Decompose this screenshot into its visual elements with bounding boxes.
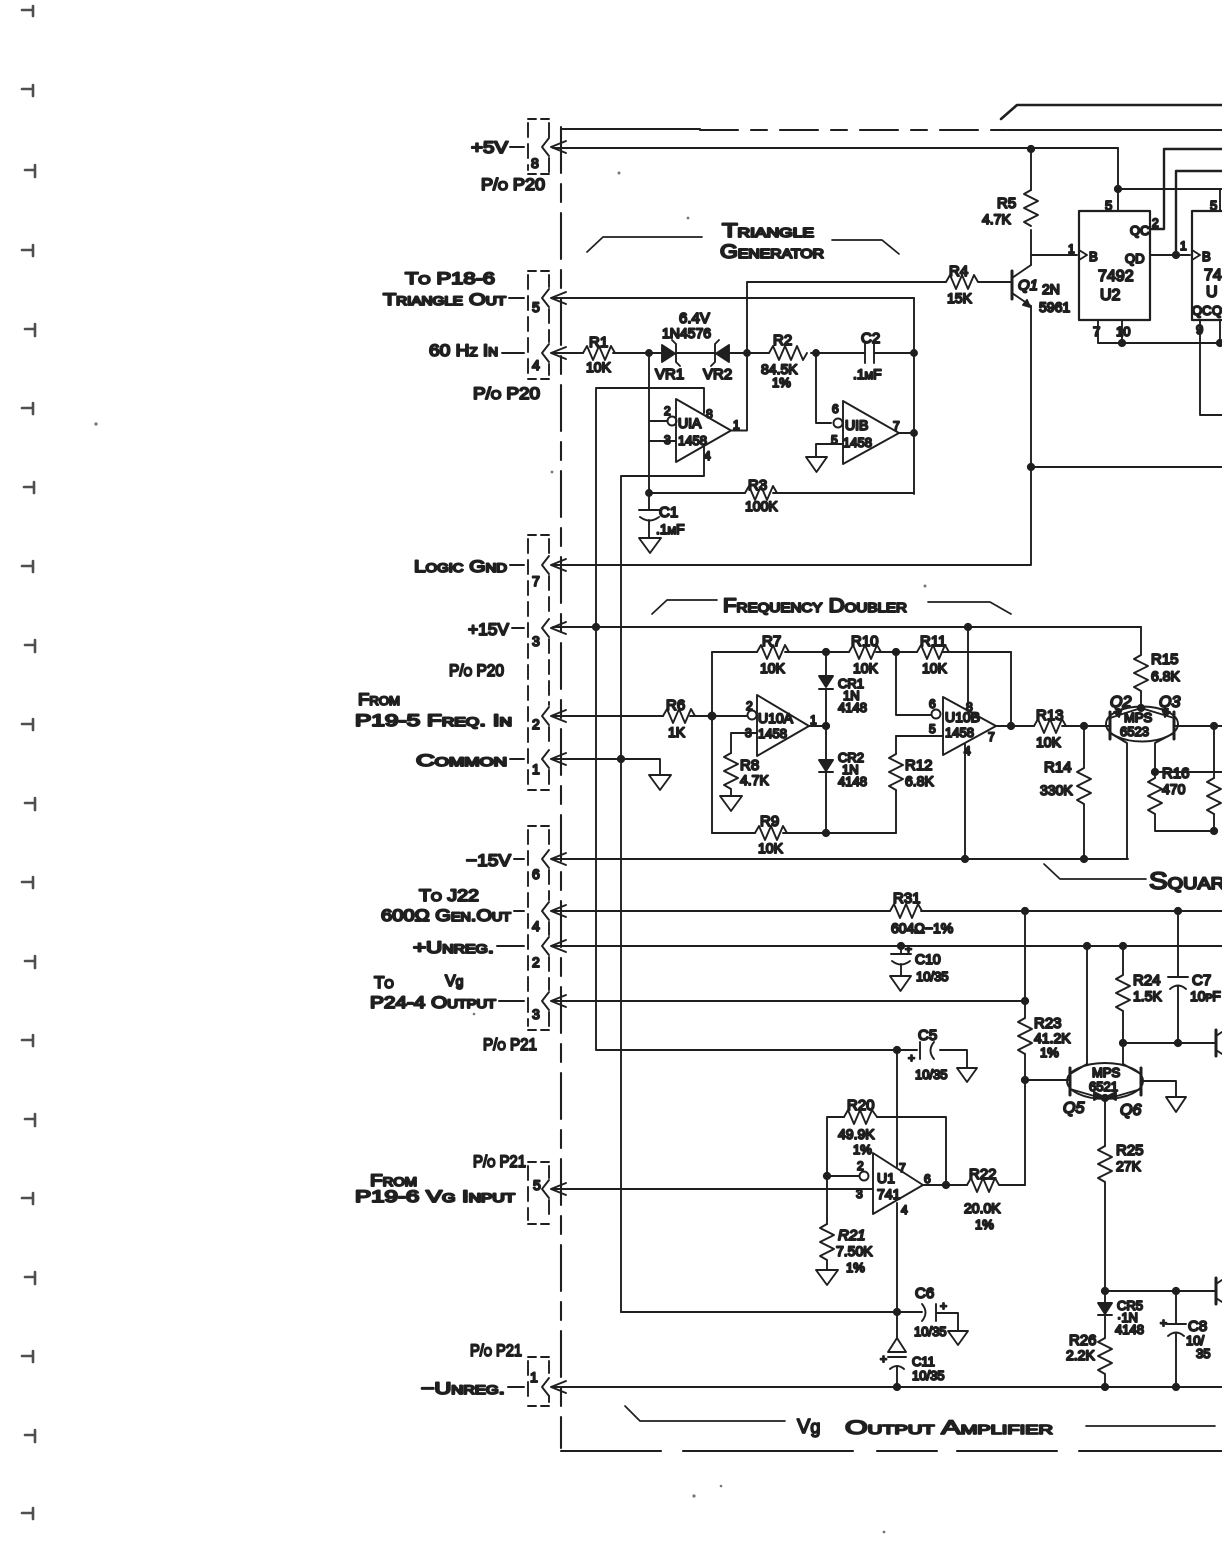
resistor R13 — [1034, 719, 1110, 733]
svg-text:1N4576: 1N4576 — [662, 325, 711, 341]
pin 4 arrow — [551, 905, 566, 917]
wire U3 pin 5 — [1219, 189, 1221, 211]
svg-text:Q6: Q6 — [1120, 1102, 1141, 1119]
svg-text:8: 8 — [531, 155, 539, 171]
banner Vg Output Amplifier callout — [625, 1406, 1215, 1426]
pin 3 arrow — [551, 995, 566, 1007]
svg-text:60 Hz In: 60 Hz In — [429, 341, 498, 360]
wire +5V rail — [553, 147, 1118, 149]
svg-text:R11: R11 — [920, 633, 946, 650]
svg-text:2: 2 — [857, 1159, 864, 1173]
svg-text:R25: R25 — [1116, 1142, 1144, 1159]
IC U2 7492 — [1079, 211, 1150, 320]
pin 5 arrow — [551, 1183, 566, 1195]
capacitor C1 — [639, 493, 660, 538]
svg-text:6: 6 — [929, 697, 936, 711]
svg-text:10/35: 10/35 — [912, 1368, 945, 1383]
OUTAMP — [553, 627, 1222, 1390]
wire assembly boundary top dash-dot — [561, 128, 700, 130]
svg-text:R3: R3 — [748, 477, 767, 494]
connector P21 pins 6,4,2,3 bracket — [528, 830, 549, 1026]
svg-text:QC: QC — [1130, 223, 1150, 238]
wire Vg output — [553, 1000, 1025, 1002]
wire Q6 base to ground — [1141, 1081, 1176, 1097]
wire -Unreg rail — [553, 1386, 1222, 1388]
svg-text:C10: C10 — [915, 951, 941, 967]
svg-text:R5: R5 — [997, 195, 1016, 212]
wire assembly boundary bottom dash — [561, 1450, 1222, 1452]
svg-text:3: 3 — [532, 1006, 540, 1022]
svg-text:+Unreg.: +Unreg. — [413, 938, 494, 957]
wire Q1 collector to +5V — [1030, 149, 1032, 265]
resistor R2 — [769, 346, 807, 360]
svg-text:1: 1 — [810, 713, 817, 727]
svg-text:From: From — [358, 690, 400, 709]
svg-text:Frequency Doubler: Frequency Doubler — [723, 596, 907, 617]
svg-text:+: + — [1160, 1316, 1167, 1330]
wire +Unreg rail — [553, 945, 1222, 947]
svg-text:R24: R24 — [1133, 972, 1161, 989]
zener VR1 — [662, 345, 675, 362]
resistor R12 — [889, 736, 903, 833]
svg-text:1%: 1% — [975, 1217, 994, 1232]
node junction Q3 collector — [1152, 769, 1158, 775]
svg-text:4.7K: 4.7K — [740, 772, 769, 788]
svg-text:Triangle: Triangle — [722, 221, 814, 242]
wire R9 row — [712, 832, 896, 834]
svg-text:4: 4 — [532, 918, 540, 934]
svg-text:6523: 6523 — [1120, 724, 1149, 739]
node junction C1/R3 — [646, 490, 652, 496]
wire Q1 emitter down to logic gnd — [553, 306, 1031, 565]
svg-text:10K: 10K — [1036, 734, 1062, 750]
svg-text:5: 5 — [1105, 198, 1112, 213]
capacitor C11 — [888, 1312, 906, 1387]
ground under C10 — [890, 976, 911, 991]
section banner top right — [1001, 105, 1222, 119]
wire Q2 base — [1084, 725, 1110, 727]
wire Vg input — [553, 1188, 873, 1190]
node junction C11 top — [894, 1309, 900, 1315]
pin 1 chevron — [542, 1378, 549, 1396]
svg-text:1: 1 — [530, 1369, 538, 1385]
ground under C1 — [639, 538, 661, 553]
svg-text:R22: R22 — [969, 1166, 997, 1183]
svg-text:3: 3 — [664, 433, 671, 447]
resistor R20 loop — [827, 1117, 946, 1176]
svg-text:C5: C5 — [918, 1027, 937, 1044]
capacitor C7 — [1168, 911, 1188, 1043]
connector P20 pins 7,3,2,1 bracket — [528, 539, 549, 786]
resistor R23 — [1018, 1018, 1032, 1054]
wire U10B pin 4 supply — [964, 744, 966, 859]
wire U3 pin 11 down — [1219, 320, 1221, 343]
wire C5 feed from +15V column — [596, 627, 967, 1068]
svg-text:1: 1 — [1180, 239, 1187, 253]
svg-text:1%: 1% — [846, 1260, 865, 1275]
pin 4 arrow — [551, 347, 566, 359]
node junction VR2 output — [744, 350, 750, 356]
svg-text:5961: 5961 — [1039, 299, 1070, 315]
pin 2 arrow — [551, 710, 566, 722]
wire QD to U3 pin 1 — [1150, 254, 1190, 256]
svg-text:P/o P20: P/o P20 — [449, 661, 504, 680]
svg-text:+: + — [940, 1299, 947, 1313]
svg-text:U10A: U10A — [758, 710, 794, 726]
svg-text:4: 4 — [704, 449, 711, 463]
pin 1 arrow — [551, 753, 566, 765]
svg-text:1458: 1458 — [945, 725, 974, 740]
pin 5 chevron — [542, 1180, 549, 1198]
svg-text:5: 5 — [929, 722, 936, 736]
svg-text:U10B: U10B — [945, 709, 980, 725]
TOPRIGHT — [553, 146, 1222, 565]
connector P20 pins 5,4 bracket — [528, 275, 549, 375]
svg-text:C11: C11 — [912, 1354, 935, 1369]
diode CR2 — [819, 726, 833, 833]
svg-text:UIA: UIA — [678, 415, 702, 431]
svg-text:VR2: VR2 — [703, 366, 732, 383]
svg-text:−Unreg.: −Unreg. — [421, 1379, 505, 1398]
node junction CR1 top — [823, 649, 829, 655]
pin 3 chevron — [542, 992, 549, 1010]
wire Q3 base to right — [1174, 725, 1222, 727]
svg-text:R31: R31 — [893, 890, 921, 907]
wire QC to top right — [1150, 149, 1222, 229]
svg-text:6.8K: 6.8K — [1151, 668, 1180, 684]
pin 5 arrow — [551, 292, 566, 304]
svg-text:C1: C1 — [659, 504, 678, 521]
svg-text:7: 7 — [1093, 324, 1100, 339]
svg-text:470: 470 — [1162, 781, 1186, 797]
svg-text:74: 74 — [1204, 267, 1222, 284]
svg-text:P/o P20: P/o P20 — [481, 175, 545, 194]
node junction R14 bottom — [1081, 856, 1087, 862]
svg-text:6: 6 — [532, 866, 540, 882]
svg-text:7.50K: 7.50K — [836, 1243, 873, 1259]
resistor R10 — [849, 645, 881, 659]
wire 60 Hz In — [553, 352, 914, 354]
svg-text:Q2: Q2 — [1110, 694, 1131, 711]
resistor R1 — [583, 346, 615, 360]
svg-text:+: + — [908, 1051, 915, 1065]
svg-text:Common: Common — [416, 751, 507, 770]
node junction C10 — [898, 943, 904, 949]
pin 4 chevron — [542, 902, 549, 920]
op-amp U1 741 — [873, 1153, 923, 1214]
svg-text:To J22: To J22 — [419, 886, 479, 905]
capacitor C6 — [922, 1304, 958, 1331]
node junction Q5 base — [1022, 1077, 1028, 1083]
wire Common to ground — [553, 759, 660, 775]
node junction R24 top — [1120, 943, 1126, 949]
svg-text:8: 8 — [706, 407, 713, 421]
svg-text:6: 6 — [832, 402, 839, 416]
svg-text:−15V: −15V — [466, 851, 512, 870]
svg-text:P19-6 Vg Input: P19-6 Vg Input — [355, 1187, 516, 1206]
node junction Q5 collector at +Unreg — [1084, 943, 1090, 949]
svg-text:U: U — [1206, 284, 1218, 301]
svg-text:4148: 4148 — [838, 700, 867, 715]
svg-text:P/o P21: P/o P21 — [473, 1152, 526, 1171]
svg-text:Q: Q — [1212, 303, 1222, 318]
pin 3 chevron — [542, 619, 549, 637]
transistor Q1 — [1011, 271, 1014, 299]
wire triangle-out right vertical — [913, 298, 915, 494]
ground at Common — [649, 775, 671, 790]
wire R7 row — [712, 651, 1011, 653]
op-amp U10A — [757, 695, 809, 756]
resistor R11 — [917, 645, 949, 659]
wire U10B output / R11 tie — [996, 652, 1034, 726]
svg-text:+: + — [905, 942, 912, 956]
svg-text:1458: 1458 — [843, 435, 872, 450]
svg-text:R1: R1 — [589, 334, 608, 351]
svg-text:7: 7 — [988, 730, 995, 744]
pin 8 chevron — [542, 138, 549, 156]
svg-text:R6: R6 — [666, 697, 685, 714]
svg-text:330K: 330K — [1040, 782, 1073, 798]
svg-text:4: 4 — [901, 1203, 908, 1217]
transistor pair Q5 Q6 MPS6521 — [1067, 1063, 1143, 1099]
wire UIA pin 4 loop — [621, 447, 704, 1312]
resistor R22 — [967, 1178, 1025, 1192]
resistor R21 — [820, 1224, 834, 1270]
op-amp UIA — [676, 399, 731, 462]
node junction emitter line — [1028, 464, 1034, 470]
svg-text:To: To — [374, 973, 394, 992]
node junction UIB output — [911, 430, 917, 436]
connector P20 pin 8 bracket — [528, 123, 549, 172]
wire Q3 collector out — [1155, 771, 1222, 773]
svg-text:10/35: 10/35 — [914, 1324, 947, 1339]
svg-text:R9: R9 — [760, 813, 779, 830]
svg-text:+5V: +5V — [471, 138, 509, 157]
wire to U10B pin 6 — [896, 652, 931, 715]
svg-text:7: 7 — [532, 573, 540, 589]
svg-text:9: 9 — [1196, 322, 1203, 337]
svg-text:4.7K: 4.7K — [982, 211, 1011, 227]
svg-text:41.2K: 41.2K — [1034, 1030, 1071, 1046]
svg-text:MPS: MPS — [1092, 1065, 1121, 1080]
node junction R31 output column top — [1022, 908, 1028, 914]
pin 1 chevron — [542, 750, 549, 768]
svg-text:4: 4 — [532, 357, 540, 373]
svg-text:VR1: VR1 — [655, 366, 684, 383]
pin 8 arrow — [551, 141, 566, 153]
capacitor C8 — [1166, 1291, 1186, 1387]
svg-text:C7: C7 — [1192, 972, 1211, 989]
wire UIB output — [899, 432, 914, 434]
svg-text:1%: 1% — [772, 375, 791, 390]
FREQDBL — [553, 596, 1222, 895]
ground at Q6 base — [1166, 1097, 1186, 1112]
wire U2 pin 1 input — [1031, 254, 1077, 256]
svg-text:3: 3 — [856, 1187, 863, 1201]
wire UIA pin 8 supply loop — [596, 388, 704, 627]
svg-text:R13: R13 — [1036, 707, 1064, 724]
resistor R5 — [1024, 190, 1038, 226]
pin 7 chevron — [542, 556, 549, 574]
svg-text:+15V: +15V — [468, 620, 510, 639]
svg-text:6.8K: 6.8K — [905, 773, 934, 789]
svg-text:Vg: Vg — [445, 973, 463, 990]
svg-text:P24-4 Output: P24-4 Output — [370, 993, 497, 1012]
svg-text:R14: R14 — [1044, 759, 1072, 776]
wire U10A pin3 / R8 — [731, 733, 757, 753]
svg-text:To P18-6: To P18-6 — [405, 269, 495, 288]
resistor R25 — [1098, 1146, 1112, 1291]
wire UIA inverting input — [649, 353, 667, 493]
resistor R8 — [724, 753, 738, 796]
resistor R14 — [1077, 726, 1091, 859]
wire emitters to R25 — [1104, 1098, 1106, 1146]
IC U3 (partial) — [1192, 211, 1222, 320]
resistor R17 partial — [1207, 726, 1221, 831]
svg-text:1.5K: 1.5K — [1133, 988, 1162, 1004]
BOTTOM — [625, 1406, 1215, 1439]
svg-text:MPS: MPS — [1124, 710, 1153, 725]
svg-text:QC: QC — [1192, 303, 1212, 318]
svg-text:5: 5 — [1210, 198, 1217, 213]
svg-text:4148: 4148 — [1115, 1322, 1144, 1337]
node junction R13/R14 — [1081, 723, 1087, 729]
resistor R15 — [1134, 627, 1148, 708]
banner Square (clipped) — [1044, 864, 1146, 879]
diode CR5 — [1098, 1291, 1112, 1338]
wire -15V rail — [553, 858, 1128, 860]
wire U1 pin 7 — [896, 1050, 898, 1167]
pin 2 arrow — [551, 940, 566, 952]
op-amp U10B — [943, 697, 996, 755]
svg-text:Squar: Squar — [1149, 868, 1222, 895]
wire 600 ohm gen out — [553, 910, 1222, 912]
svg-text:6: 6 — [924, 1172, 931, 1186]
banner Frequency Doubler callout — [652, 600, 1011, 614]
node junction C5 / U1 pin7 — [894, 1047, 900, 1053]
wire U2 pins 7,10 ground — [1098, 320, 1222, 343]
svg-text:Generator: Generator — [720, 242, 824, 263]
svg-text:R16: R16 — [1162, 765, 1190, 782]
node junction C7 top — [1175, 908, 1181, 914]
wire UIA output up to R4 rail — [731, 282, 946, 431]
transistor pair Q2 Q3 MPS6523 — [1106, 707, 1178, 742]
node junction at R1/VR1 — [646, 350, 652, 356]
wire UIB inverting input — [816, 353, 831, 423]
resistor R4 — [946, 275, 1012, 289]
svg-text:R12: R12 — [905, 757, 933, 774]
node junction R10/R11 — [893, 649, 899, 655]
resistor R31 — [890, 904, 922, 918]
svg-text:2: 2 — [532, 716, 540, 732]
connector P21 pin 1 bracket — [528, 1361, 549, 1402]
wire UIA pin 3 to C1/R3 node — [649, 440, 676, 442]
node junction Common pickup — [618, 756, 624, 762]
capacitor C2 — [865, 343, 874, 363]
svg-text:15K: 15K — [947, 290, 973, 306]
svg-text:600Ω Gen.Out: 600Ω Gen.Out — [381, 906, 512, 925]
resistor R3 — [745, 486, 777, 500]
svg-text:1K: 1K — [668, 724, 686, 740]
pin 3 arrow — [551, 622, 566, 634]
svg-text:5: 5 — [532, 299, 540, 315]
wire U3 pin 9 down — [1200, 320, 1222, 415]
svg-text:3: 3 — [532, 633, 540, 649]
svg-text:Output Amplifier: Output Amplifier — [845, 1418, 1053, 1439]
ground under R21 — [816, 1270, 838, 1285]
transistor Q7 partial — [1215, 1030, 1218, 1056]
wire U10A output — [809, 725, 823, 727]
svg-text:5: 5 — [533, 1177, 541, 1193]
wire to Q8 base — [1105, 1290, 1216, 1292]
wire Freq In — [553, 715, 712, 717]
svg-text:2: 2 — [664, 404, 671, 418]
svg-text:Logic Gnd: Logic Gnd — [414, 557, 507, 576]
svg-text:6521: 6521 — [1089, 1079, 1118, 1094]
svg-text:2: 2 — [532, 954, 540, 970]
svg-text:2: 2 — [1152, 216, 1159, 230]
svg-text:1%: 1% — [853, 1142, 872, 1157]
pin 2 chevron — [542, 937, 549, 955]
banner Triangle Generator callout — [587, 237, 899, 254]
pin 5 chevron — [542, 289, 549, 307]
svg-text:Q3: Q3 — [1159, 694, 1180, 711]
pin 2 chevron — [542, 707, 549, 725]
wire U1 output — [923, 1176, 967, 1185]
resistor R6 — [663, 709, 695, 723]
wire Q5 base — [1025, 1079, 1070, 1081]
svg-text:+: + — [880, 1352, 887, 1366]
node junction R6/R7 — [709, 713, 716, 720]
svg-text:C2: C2 — [861, 330, 880, 347]
EDGE-MARKS — [22, 6, 35, 1519]
svg-text:604Ω−1%: 604Ω−1% — [891, 920, 953, 936]
capacitor C10 — [891, 946, 911, 976]
svg-text:P/o P21: P/o P21 — [470, 1341, 522, 1360]
diode CR1 — [819, 652, 833, 726]
svg-text:B: B — [1089, 249, 1098, 264]
svg-text:R4: R4 — [949, 263, 968, 280]
wire U10B pin5 — [896, 735, 943, 737]
BOUNDARY — [561, 105, 1222, 1451]
svg-text:R10: R10 — [851, 633, 879, 650]
svg-text:Vg: Vg — [797, 1416, 820, 1438]
wire R3 feedback — [649, 492, 914, 494]
svg-text:1: 1 — [532, 761, 540, 777]
node junction CR2 bottom — [823, 830, 829, 836]
svg-text:100K: 100K — [745, 498, 778, 514]
svg-text:7492: 7492 — [1098, 268, 1134, 285]
svg-text:10/35: 10/35 — [915, 1067, 948, 1082]
svg-text:10K: 10K — [922, 660, 948, 676]
resistor R9 — [755, 826, 787, 840]
transistor Q8 partial — [1215, 1278, 1218, 1304]
svg-text:P/o P20: P/o P20 — [473, 384, 540, 403]
svg-text:R15: R15 — [1151, 651, 1179, 668]
svg-text:R21: R21 — [838, 1227, 866, 1244]
ground at C6 — [948, 1331, 968, 1345]
svg-text:QD: QD — [1125, 251, 1145, 266]
resistor R24 — [1116, 946, 1130, 1043]
svg-text:.1µF: .1µF — [853, 366, 882, 382]
wire U10B pin 8 supply — [967, 627, 969, 705]
svg-text:2: 2 — [746, 699, 753, 713]
svg-text:27K: 27K — [1116, 1158, 1142, 1174]
CONNECTOR — [355, 119, 566, 1406]
svg-text:10pF: 10pF — [1190, 988, 1221, 1004]
ground under UIB pin 5 — [806, 457, 827, 472]
svg-text:10K: 10K — [758, 840, 784, 856]
